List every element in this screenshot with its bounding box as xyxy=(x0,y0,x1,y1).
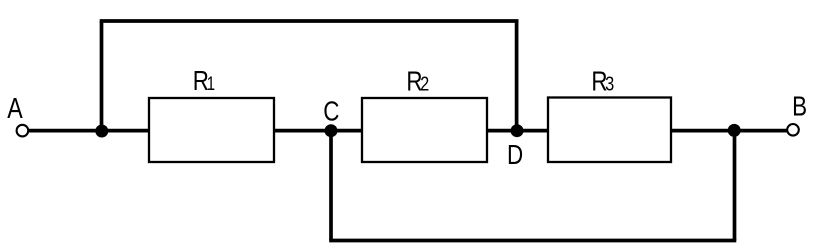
wire resistor R2 right to node D xyxy=(487,129,517,133)
junction J2 xyxy=(728,124,741,137)
wire node C to resistor R2 left xyxy=(331,129,362,133)
wire resistor R1 right to node C xyxy=(274,129,331,133)
node D junction xyxy=(511,124,524,137)
resistor R1 xyxy=(149,98,274,162)
wire node D to resistor R3 left xyxy=(517,129,548,133)
resistor R2 xyxy=(362,98,487,162)
wire junction J1 to resistor R1 left xyxy=(102,129,150,133)
svg-text:R2: R2 xyxy=(406,66,429,97)
wire bottom bypass horizontal xyxy=(329,239,736,243)
node C junction xyxy=(325,124,338,137)
svg-text:A: A xyxy=(7,91,23,124)
wire resistor R3 right to junction J2 xyxy=(671,129,735,133)
wire terminal A to junction J1 xyxy=(29,129,102,133)
resistor R3 xyxy=(548,98,671,163)
wire top bypass right vertical (down to node D) xyxy=(515,21,519,131)
wire junction J2 to terminal B xyxy=(735,129,787,133)
terminal B xyxy=(787,124,799,136)
svg-text:D: D xyxy=(507,140,523,171)
junction J1 xyxy=(95,125,108,138)
svg-text:B: B xyxy=(792,91,807,122)
wire bottom bypass right vertical (up to junction J2) xyxy=(733,131,737,241)
svg-text:R3: R3 xyxy=(591,66,614,97)
wire top bypass horizontal xyxy=(100,19,519,23)
wire top bypass left vertical (J1 up) xyxy=(100,21,104,131)
svg-text:C: C xyxy=(323,96,339,127)
svg-text:R1: R1 xyxy=(193,66,215,97)
wire bottom bypass left vertical (node C down) xyxy=(329,131,333,241)
terminal A xyxy=(17,125,29,137)
